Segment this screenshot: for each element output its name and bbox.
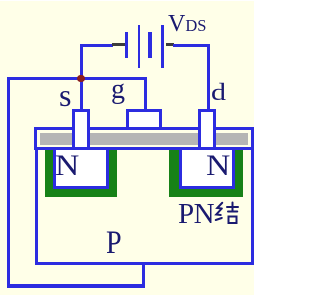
N region box right	[179, 150, 235, 189]
wire: gate vertical	[144, 78, 147, 110]
wire: battery positive black stub	[166, 43, 174, 46]
PN junction green region left	[45, 150, 117, 197]
electrode g	[126, 109, 161, 130]
battery V_DS plate 4 long	[161, 25, 164, 69]
label s	[59, 79, 71, 111]
background canvas	[0, 1, 254, 295]
wire: outer loop bottom horizontal	[7, 284, 145, 288]
label N left	[55, 151, 79, 181]
electrode d	[198, 109, 216, 151]
label g	[111, 76, 125, 104]
N region box left	[53, 150, 109, 189]
node: junction dot (s-g-substrate)	[77, 75, 85, 83]
P substrate rectangle	[35, 147, 254, 265]
wire: drain vertical	[207, 44, 210, 110]
battery V_DS plate 3 short	[148, 32, 152, 58]
wire: loop to substrate riser	[142, 264, 145, 286]
label d	[211, 81, 226, 105]
label PN of PN junction	[178, 200, 214, 229]
battery V_DS plate 2 long	[138, 25, 141, 69]
wire: outer loop left vertical	[7, 77, 10, 287]
PN junction green region right	[169, 150, 243, 197]
wire: outer loop top horizontal	[7, 77, 147, 81]
wire: battery negative black stub	[112, 43, 125, 46]
battery V_DS plate 1 short	[125, 32, 128, 58]
label V_DS	[168, 12, 206, 36]
electrode s	[72, 109, 90, 151]
label jie (Chinese) of PN junction, drawn as SVG	[214, 200, 239, 228]
metal/oxide gray bar	[34, 127, 254, 150]
wire: battery negative lead horizontal	[80, 44, 113, 47]
label P substrate	[106, 227, 122, 260]
wire: battery positive lead horizontal	[173, 44, 210, 47]
wire: source vertical	[80, 44, 83, 110]
label N right	[206, 151, 230, 181]
